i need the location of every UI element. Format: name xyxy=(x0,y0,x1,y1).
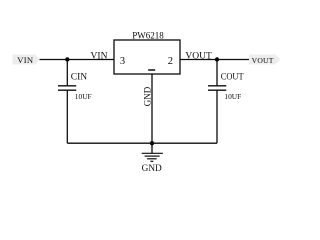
capacitor COUT xyxy=(208,86,226,90)
svg-text:3: 3 xyxy=(120,56,125,67)
node junction VIN/CIN xyxy=(65,57,69,61)
wire GND pin down xyxy=(151,74,153,143)
wire COUT top xyxy=(216,60,218,86)
wire VOUT output xyxy=(180,59,249,61)
op-amp U1 PW6218 body xyxy=(114,40,180,74)
pin number 1 (rotated dash) xyxy=(148,69,155,71)
net flag VOUT xyxy=(249,55,280,66)
wire CIN bottom xyxy=(66,90,68,143)
capacitor CIN xyxy=(58,86,76,90)
wire bottom rail xyxy=(67,142,217,144)
svg-text:GND: GND xyxy=(142,86,152,106)
svg-text:COUT: COUT xyxy=(221,71,244,81)
svg-text:PW6218: PW6218 xyxy=(132,31,164,41)
svg-text:CIN: CIN xyxy=(71,72,88,82)
svg-text:VOUT: VOUT xyxy=(252,56,274,65)
svg-text:GND: GND xyxy=(142,164,162,174)
ground symbol xyxy=(142,143,163,161)
node junction ground xyxy=(150,141,154,145)
net flag VIN xyxy=(13,55,40,66)
node junction VOUT/COUT xyxy=(215,57,219,61)
wire COUT bottom xyxy=(216,90,218,143)
svg-text:VIN: VIN xyxy=(91,51,108,61)
svg-text:10UF: 10UF xyxy=(75,92,92,101)
svg-text:VIN: VIN xyxy=(17,55,34,65)
svg-text:10UF: 10UF xyxy=(224,92,241,101)
svg-text:2: 2 xyxy=(168,56,173,67)
wire VIN input xyxy=(40,59,115,61)
wire CIN top xyxy=(66,60,68,86)
